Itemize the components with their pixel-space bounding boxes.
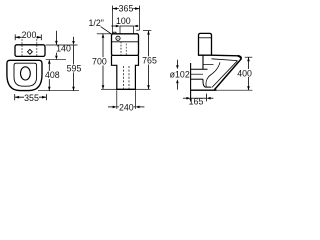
svg-text:200: 200 bbox=[22, 30, 37, 40]
svg-text:100: 100 bbox=[116, 16, 131, 26]
svg-text:ø102: ø102 bbox=[170, 69, 190, 79]
svg-text:700: 700 bbox=[92, 56, 107, 66]
svg-text:140: 140 bbox=[56, 44, 71, 54]
svg-text:765: 765 bbox=[142, 56, 157, 66]
svg-text:365: 365 bbox=[119, 3, 134, 13]
svg-text:408: 408 bbox=[45, 70, 60, 80]
svg-text:165: 165 bbox=[189, 97, 204, 107]
svg-text:355: 355 bbox=[24, 93, 39, 103]
svg-text:595: 595 bbox=[67, 64, 82, 74]
svg-text:1/2": 1/2" bbox=[89, 18, 104, 28]
svg-text:240: 240 bbox=[119, 103, 134, 113]
svg-text:400: 400 bbox=[237, 68, 252, 78]
